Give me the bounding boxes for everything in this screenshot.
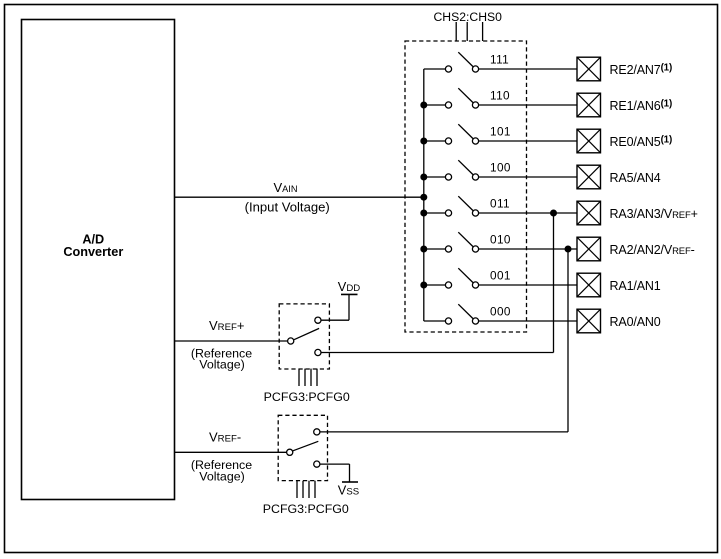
VREF+ selector dashed box <box>279 304 329 369</box>
label PCFG3:PCFG0 (VREF-) <box>263 502 349 516</box>
wire RA2 junction down to VREF- switch <box>567 249 569 432</box>
svg-text:110: 110 <box>490 89 510 103</box>
label channel code 001 <box>490 269 511 283</box>
switch SW1 (channel 111) <box>445 52 478 72</box>
svg-text:RA5/AN4: RA5/AN4 <box>610 171 661 185</box>
ground VSS symbol <box>342 481 358 483</box>
node: VAIN to bus junction <box>420 194 427 201</box>
power VDD symbol <box>341 293 358 295</box>
switch SW_VREF+ upper contact <box>315 317 321 323</box>
switch SW6 (channel 010) <box>445 232 478 252</box>
wire SW2 to pin RE1/AN6 <box>479 104 577 106</box>
label VAIN <box>274 180 298 195</box>
wire SW8 to pin RA0/AN0 <box>479 320 577 322</box>
label VREF- <box>209 430 241 445</box>
wire VREF+ from A/D Converter <box>175 340 288 342</box>
switch SW_VREF- upper contact <box>314 429 320 435</box>
PCFG3:PCFG0 control lines (VREF-) <box>297 481 315 498</box>
node: bus junction row 001 <box>420 282 427 289</box>
switch SW_VREF- arm <box>293 441 318 451</box>
I/O pin symbol RA0/AN0 <box>577 309 601 333</box>
I/O pin symbol RA1/AN1 <box>577 273 601 297</box>
analog multiplexer dashed box <box>405 41 527 332</box>
I/O pin symbol RA5/AN4 <box>577 165 601 189</box>
label VREF+ <box>209 318 244 333</box>
svg-text:010: 010 <box>490 233 511 247</box>
label channel code 110 <box>490 89 510 103</box>
I/O pin symbol RA2/AN2/VREF- <box>577 237 601 261</box>
label pin RA0/AN0 <box>610 315 661 329</box>
wire mux common bus (vertical) <box>423 69 425 321</box>
wire SW7 to pin RA1/AN1 <box>479 284 577 286</box>
svg-text:100: 100 <box>490 161 511 175</box>
switch SW7 (channel 001) <box>445 268 478 288</box>
wire VAIN from A/D Converter to mux bus <box>175 196 424 198</box>
label (Reference Voltage) lower <box>191 458 252 484</box>
svg-text:001: 001 <box>490 269 511 283</box>
wire bus to switch SW1 <box>424 68 446 70</box>
label PCFG3:PCFG0 (VREF+) <box>264 390 350 404</box>
wire VREF- from A/D Converter <box>175 451 287 453</box>
I/O pin symbol RE0/AN5 <box>577 129 601 153</box>
svg-text:RA2/AN2/VREF-: RA2/AN2/VREF- <box>610 243 695 257</box>
wire VREF+ upper contact to VDD <box>321 294 349 320</box>
wire SW3 to pin RE0/AN5 <box>479 140 577 142</box>
svg-text:RA1/AN1: RA1/AN1 <box>610 279 661 293</box>
switch SW8 (channel 000) <box>445 304 478 324</box>
svg-text:111: 111 <box>490 53 509 67</box>
svg-text:CHS2:CHS0: CHS2:CHS0 <box>434 10 503 24</box>
node: bus junction row 101 <box>420 138 427 145</box>
label channel code 000 <box>490 305 511 319</box>
I/O pin symbol RE2/AN7 <box>577 57 601 81</box>
label pin RA2/AN2/VREF- <box>610 243 695 257</box>
switch SW_VREF+ lower contact <box>315 349 321 355</box>
label channel code 101 <box>490 125 511 139</box>
switch SW2 (channel 110) <box>445 88 478 108</box>
switch SW_VREF+ (common contact) <box>288 338 294 344</box>
wire bus to switch SW5 <box>424 212 446 214</box>
wire RA3 junction down to VREF+ switch <box>553 213 555 353</box>
svg-text:011: 011 <box>490 197 510 211</box>
label VSS <box>338 483 359 498</box>
label pin RA3/AN3/VREF+ <box>610 207 698 221</box>
node: bus junction row 010 <box>420 246 427 253</box>
label (Input Voltage) <box>245 200 330 215</box>
label channel code 100 <box>490 161 511 175</box>
svg-text:RA3/AN3/VREF+: RA3/AN3/VREF+ <box>610 207 698 221</box>
CHS2 select line <box>455 22 457 41</box>
switch SW5 (channel 011) <box>445 196 478 216</box>
label pin RA1/AN1 <box>610 279 661 293</box>
wire SW1 to pin RE2/AN7 <box>479 68 577 70</box>
label pin RE2/AN7 <box>610 62 673 77</box>
wire bus to switch SW4 <box>424 176 446 178</box>
wire bus to switch SW3 <box>424 140 446 142</box>
wire bus to switch SW6 <box>424 248 446 250</box>
PCFG3:PCFG0 control lines (VREF+) <box>299 369 317 386</box>
VREF- selector dashed box <box>278 415 327 480</box>
wire VREF- lower contact to VSS <box>320 464 350 482</box>
node: junction on RA3/AN3 wire to VREF+ switch <box>550 210 557 217</box>
svg-text:Converter: Converter <box>63 245 123 259</box>
wire bus to switch SW8 <box>424 320 446 322</box>
node: bus junction row 011 <box>420 210 427 217</box>
label channel code 011 <box>490 197 510 211</box>
svg-text:Voltage): Voltage) <box>199 358 244 372</box>
label pin RE1/AN6 <box>610 98 673 113</box>
wire VREF+ switch upper-right contact to RA3 link <box>321 352 554 354</box>
node: bus junction row 110 <box>420 102 427 109</box>
wire VREF- switch contact to RA2 link <box>320 431 568 433</box>
label pin RA5/AN4 <box>610 171 661 185</box>
label channel code 111 <box>490 53 509 67</box>
CHS1 select line <box>466 22 468 41</box>
I/O pin symbol RE1/AN6 <box>577 93 601 117</box>
svg-text:(Input Voltage): (Input Voltage) <box>245 200 330 215</box>
wire bus to switch SW7 <box>424 284 446 286</box>
A/D Converter block <box>22 20 175 500</box>
label CHS2:CHS0 <box>434 10 503 24</box>
node: bus junction row 100 <box>420 174 427 181</box>
switch SW4 (channel 100) <box>445 160 478 180</box>
wire SW4 to pin RA5/AN4 <box>479 176 577 178</box>
wire bus to switch SW2 <box>424 104 446 106</box>
svg-text:PCFG3:PCFG0: PCFG3:PCFG0 <box>264 390 350 404</box>
CHS0 select line <box>482 22 484 41</box>
label VDD <box>338 279 360 294</box>
svg-text:PCFG3:PCFG0: PCFG3:PCFG0 <box>263 502 349 516</box>
label (Reference Voltage) upper <box>191 347 252 372</box>
switch SW_VREF- lower contact <box>314 461 320 467</box>
svg-text:RA0/AN0: RA0/AN0 <box>610 315 661 329</box>
label channel code 010 <box>490 233 511 247</box>
wire SW6 to pin RA2/AN2/VREF- <box>479 248 577 250</box>
I/O pin symbol RA3/AN3/VREF+ <box>577 201 601 225</box>
switch SW_VREF+ arm <box>294 328 319 339</box>
svg-text:101: 101 <box>490 125 511 139</box>
label pin RE0/AN5 <box>610 134 673 149</box>
switch SW_VREF- (common contact) <box>287 449 293 455</box>
svg-text:000: 000 <box>490 305 511 319</box>
switch SW3 (channel 101) <box>445 124 478 144</box>
node: junction on RA2/AN2 wire to VREF- switch <box>565 246 572 253</box>
svg-text:Voltage): Voltage) <box>199 470 244 484</box>
wire SW5 to pin RA3/AN3/VREF+ <box>479 212 577 214</box>
